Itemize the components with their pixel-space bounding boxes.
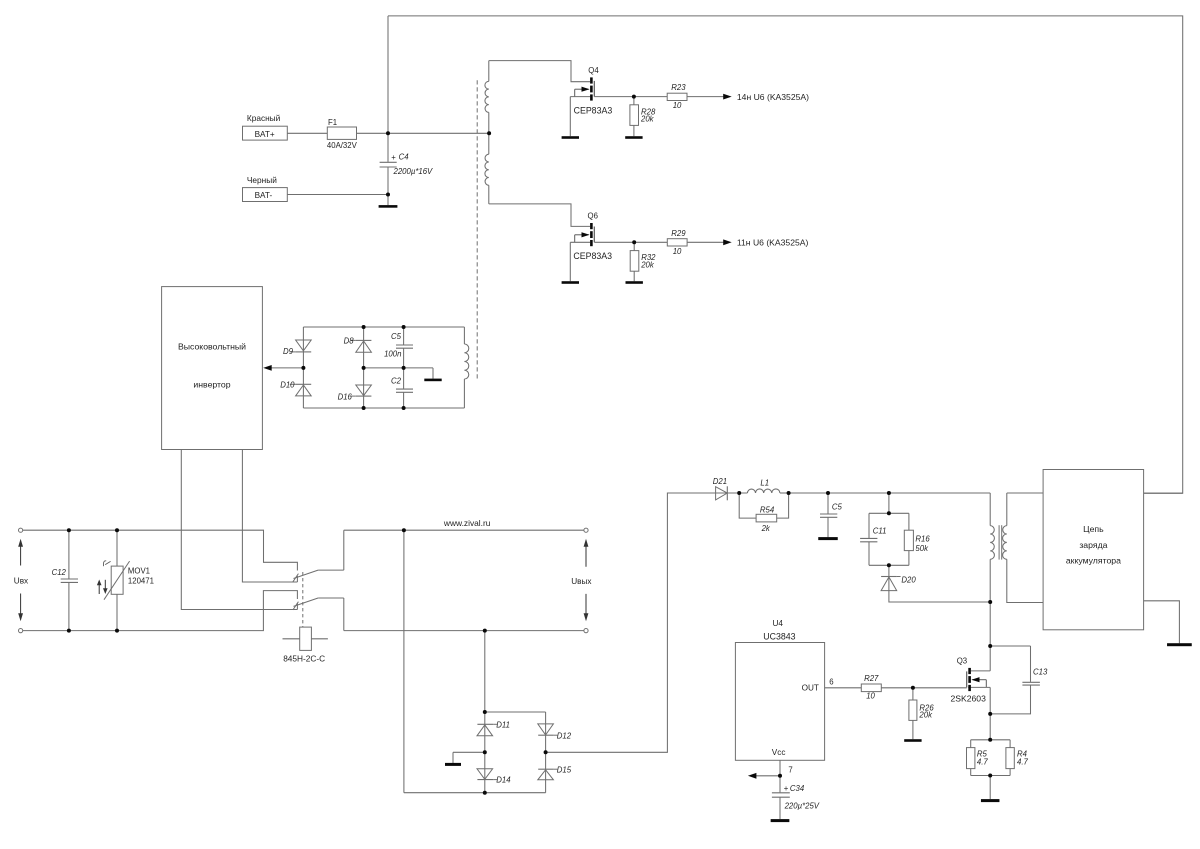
svg-text:40A/32V: 40A/32V <box>327 141 358 150</box>
svg-text:+: + <box>784 784 789 793</box>
svg-text:CEP83A3: CEP83A3 <box>573 251 612 261</box>
svg-text:Цепь: Цепь <box>1083 524 1104 534</box>
svg-text:Uвх: Uвх <box>14 576 28 585</box>
svg-text:D8: D8 <box>344 337 355 346</box>
svg-text:L1: L1 <box>760 478 769 487</box>
svg-text:Uвых: Uвых <box>571 577 591 586</box>
svg-text:20k: 20k <box>640 260 655 269</box>
svg-text:Черный: Черный <box>247 175 277 185</box>
svg-text:6: 6 <box>829 677 833 686</box>
svg-text:7: 7 <box>788 765 792 774</box>
svg-text:R27: R27 <box>864 674 879 683</box>
svg-text:R29: R29 <box>671 229 686 238</box>
svg-text:C5: C5 <box>391 332 402 341</box>
svg-text:10: 10 <box>673 101 682 110</box>
svg-text:C4: C4 <box>399 153 410 162</box>
svg-text:BAT-: BAT- <box>255 191 273 200</box>
svg-text:D10: D10 <box>280 381 295 390</box>
svg-text:10: 10 <box>673 247 682 256</box>
svg-text:2200µ*16V: 2200µ*16V <box>393 167 434 176</box>
svg-text:C5: C5 <box>832 503 843 512</box>
svg-text:аккумулятора: аккумулятора <box>1066 556 1121 566</box>
svg-text:Q6: Q6 <box>588 212 598 221</box>
svg-text:C2: C2 <box>391 377 402 386</box>
svg-text:D9: D9 <box>283 347 294 356</box>
svg-text:D15: D15 <box>557 766 572 775</box>
svg-text:+: + <box>391 153 396 162</box>
svg-text:U4: U4 <box>773 619 784 628</box>
svg-text:BAT+: BAT+ <box>255 130 275 139</box>
svg-text:C11: C11 <box>873 526 887 535</box>
svg-text:4.7: 4.7 <box>977 757 989 766</box>
svg-text:2k: 2k <box>761 524 771 533</box>
svg-text:4.7: 4.7 <box>1017 757 1029 766</box>
svg-text:D12: D12 <box>557 732 572 741</box>
svg-text:Красный: Красный <box>247 113 281 123</box>
svg-text:10: 10 <box>866 692 875 701</box>
svg-text:D11: D11 <box>496 721 510 730</box>
svg-text:120471: 120471 <box>128 576 154 585</box>
svg-text:20k: 20k <box>918 711 933 720</box>
svg-text:100n: 100n <box>384 349 401 358</box>
svg-text:CEP83A3: CEP83A3 <box>574 106 613 116</box>
svg-text:Q3: Q3 <box>957 657 967 666</box>
svg-text:11н U6 (KA3525A): 11н U6 (KA3525A) <box>737 238 809 248</box>
svg-text:C13: C13 <box>1033 668 1048 677</box>
svg-text:R54: R54 <box>760 505 775 514</box>
svg-text:20k: 20k <box>640 115 655 124</box>
svg-text:220µ*25V: 220µ*25V <box>784 801 820 810</box>
svg-text:C34: C34 <box>790 784 805 793</box>
svg-text:инвертор: инвертор <box>193 380 230 390</box>
svg-text:845H-2C-C: 845H-2C-C <box>283 654 325 664</box>
svg-text:Q4: Q4 <box>588 66 599 75</box>
svg-text:R23: R23 <box>671 83 686 92</box>
svg-text:C12: C12 <box>52 568 67 577</box>
svg-text:заряда: заряда <box>1079 540 1107 550</box>
svg-text:D14: D14 <box>496 776 511 785</box>
svg-text:R16: R16 <box>915 534 930 543</box>
svg-text:D16: D16 <box>338 392 353 401</box>
svg-text:MOV1: MOV1 <box>128 567 150 576</box>
svg-text:2SK2603: 2SK2603 <box>951 694 987 704</box>
svg-text:Высоковольтный: Высоковольтный <box>178 342 246 352</box>
svg-text:Vcc: Vcc <box>772 748 786 757</box>
svg-text:D20: D20 <box>901 575 916 584</box>
svg-text:UC3843: UC3843 <box>763 631 795 641</box>
svg-text:14н U6 (KA3525A): 14н U6 (KA3525A) <box>737 92 809 102</box>
svg-text:www.zival.ru: www.zival.ru <box>443 518 491 528</box>
svg-text:50k: 50k <box>915 544 929 553</box>
svg-text:F1: F1 <box>328 118 337 127</box>
svg-text:D21: D21 <box>713 477 727 486</box>
svg-text:OUT: OUT <box>802 684 819 693</box>
